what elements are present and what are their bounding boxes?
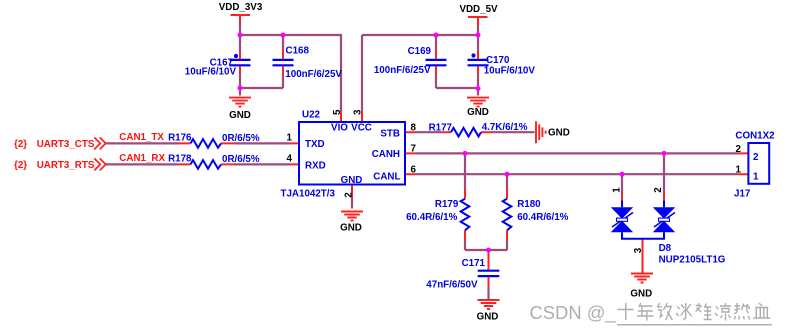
svg-text:3: 3 bbox=[353, 109, 364, 115]
svg-text:100nF/6/25V: 100nF/6/25V bbox=[374, 65, 431, 76]
svg-text:2: 2 bbox=[343, 192, 354, 198]
svg-text:5: 5 bbox=[332, 109, 343, 115]
svg-text:2: 2 bbox=[736, 144, 742, 155]
svg-text:0R/6/5%: 0R/6/5% bbox=[222, 154, 260, 165]
svg-text:U22: U22 bbox=[302, 110, 321, 121]
svg-text:UART3_CTS: UART3_CTS bbox=[37, 139, 95, 150]
svg-text:47nF/6/50V: 47nF/6/50V bbox=[426, 279, 478, 290]
svg-text:1: 1 bbox=[736, 164, 742, 175]
svg-text:VDD_3V3: VDD_3V3 bbox=[219, 2, 263, 13]
svg-text:GND: GND bbox=[548, 127, 570, 138]
svg-text:2: 2 bbox=[753, 152, 759, 163]
svg-text:GND: GND bbox=[477, 312, 499, 323]
svg-text:R177: R177 bbox=[429, 123, 453, 134]
svg-text:2: 2 bbox=[653, 187, 664, 193]
svg-text:GND: GND bbox=[467, 107, 489, 118]
svg-text:VCC: VCC bbox=[351, 122, 372, 133]
svg-text:CON1X2: CON1X2 bbox=[735, 130, 775, 141]
svg-text:CANH: CANH bbox=[372, 149, 400, 160]
svg-text:CAN1_TX: CAN1_TX bbox=[119, 132, 164, 143]
svg-text:VIO: VIO bbox=[331, 122, 348, 133]
svg-text:10uF/6/10V: 10uF/6/10V bbox=[185, 67, 237, 78]
svg-text:{2}: {2} bbox=[14, 160, 27, 171]
svg-text:60.4R/6/1%: 60.4R/6/1% bbox=[406, 212, 457, 223]
svg-text:8: 8 bbox=[411, 123, 417, 134]
svg-text:R179: R179 bbox=[435, 199, 459, 210]
svg-text:GND: GND bbox=[229, 110, 251, 121]
svg-text:R176: R176 bbox=[168, 133, 192, 144]
svg-text:R180: R180 bbox=[517, 199, 541, 210]
svg-text:TXD: TXD bbox=[305, 139, 325, 150]
svg-text:GND: GND bbox=[630, 289, 652, 300]
svg-text:GND: GND bbox=[340, 223, 362, 234]
svg-text:D8: D8 bbox=[659, 243, 672, 254]
svg-text:CANL: CANL bbox=[373, 171, 400, 182]
svg-text:J17: J17 bbox=[734, 189, 751, 200]
svg-text:100nF/6/25V: 100nF/6/25V bbox=[285, 69, 342, 80]
svg-text:C171: C171 bbox=[462, 258, 486, 269]
svg-text:0R/6/5%: 0R/6/5% bbox=[222, 133, 260, 144]
svg-text:1: 1 bbox=[753, 172, 759, 183]
svg-text:1: 1 bbox=[611, 187, 622, 193]
svg-text:3: 3 bbox=[633, 247, 644, 253]
svg-text:UART3_RTS: UART3_RTS bbox=[37, 160, 95, 171]
svg-text:GND: GND bbox=[341, 175, 363, 186]
svg-text:10uF/6/10V: 10uF/6/10V bbox=[484, 65, 536, 76]
svg-text:{2}: {2} bbox=[14, 139, 27, 150]
svg-text:CAN1_RX: CAN1_RX bbox=[119, 153, 165, 164]
svg-text:C169: C169 bbox=[408, 46, 432, 57]
svg-text:1: 1 bbox=[287, 133, 293, 144]
svg-text:C168: C168 bbox=[286, 46, 310, 57]
svg-text:RXD: RXD bbox=[305, 160, 326, 171]
svg-text:60.4R/6/1%: 60.4R/6/1% bbox=[517, 212, 568, 223]
svg-text:4.7K/6/1%: 4.7K/6/1% bbox=[482, 122, 528, 133]
svg-text:NUP2105LT1G: NUP2105LT1G bbox=[659, 255, 726, 266]
svg-text:R178: R178 bbox=[168, 154, 192, 165]
svg-text:7: 7 bbox=[411, 144, 417, 155]
svg-text:6: 6 bbox=[411, 164, 417, 175]
svg-text:STB: STB bbox=[380, 128, 400, 139]
svg-text:TJA1042T/3: TJA1042T/3 bbox=[281, 188, 336, 199]
svg-text:CSDN @_: CSDN @_ bbox=[530, 302, 617, 324]
svg-text:4: 4 bbox=[287, 154, 293, 165]
svg-text:VDD_5V: VDD_5V bbox=[459, 4, 498, 15]
